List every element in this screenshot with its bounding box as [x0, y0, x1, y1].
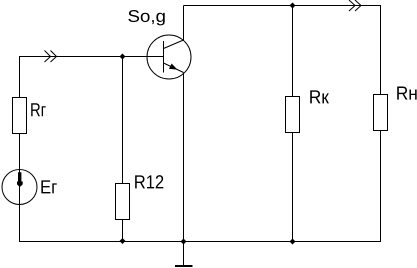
wire: top rail	[184, 5, 382, 7]
wire: bottom rail	[19, 241, 381, 243]
wire: Rн bottom to bottom rail	[380, 131, 382, 242]
arrow: input signal chevrons	[45, 51, 57, 63]
wire: Rк bottom to bottom rail	[292, 132, 294, 242]
resistor R12	[116, 184, 130, 220]
wire: vertical through source down to bottom rail	[19, 170, 21, 242]
node: base / R12 junction	[120, 54, 126, 60]
wire: collector up to top rail	[183, 6, 185, 41]
label Eг	[41, 180, 56, 193]
source Eг arrow (EMF direction mark)	[17, 172, 23, 186]
wire: R12 branch vertical from base junction	[122, 57, 124, 184]
label Rг	[31, 103, 45, 116]
arrow: output signal chevrons on top rail	[349, 0, 361, 11]
label Rн	[397, 87, 416, 100]
transistor VT1 (NPN, circle)	[147, 35, 191, 79]
transistor VT1 emitter stroke	[164, 63, 184, 73]
resistor Rк	[286, 97, 300, 133]
wire: Rк branch top	[292, 6, 294, 97]
label Rк	[310, 90, 329, 103]
transistor VT1 collector stroke	[164, 40, 184, 49]
resistor Rг	[13, 98, 27, 134]
wire: Rг to source Eг	[19, 134, 21, 170]
label R12	[135, 175, 163, 188]
ground	[175, 242, 193, 267]
node: R12 / bottom rail junction	[120, 238, 126, 244]
node: Rк / bottom rail junction	[290, 239, 296, 245]
label So,g	[128, 10, 164, 25]
node: emitter / bottom rail junction	[181, 239, 187, 245]
wire: R12 bottom to bottom rail	[122, 220, 124, 242]
transistor VT1 base bar	[163, 41, 165, 73]
resistor Rн	[374, 95, 388, 131]
wire: Rн branch top	[380, 6, 382, 95]
node: top rail / Rк junction	[290, 3, 296, 9]
wire: emitter down to bottom rail	[183, 73, 185, 242]
transistor VT1 emitter arrow	[169, 64, 178, 70]
source Eг (EMF source circle)	[2, 170, 37, 205]
wire: input horizontal from Rг corner to transistor base	[19, 56, 164, 98]
